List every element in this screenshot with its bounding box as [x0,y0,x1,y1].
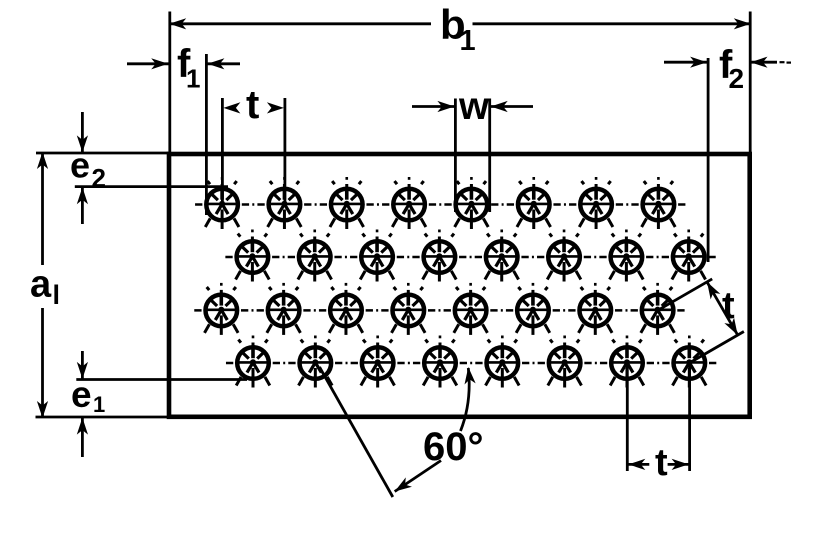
f2 extension line [707,58,710,262]
tube hole row1 col8 [642,177,676,229]
svg-text:1: 1 [460,25,476,57]
f1 left arrow shaft [127,62,169,65]
w left arrow shaft [412,105,455,108]
tube hole row4 col7 [610,336,644,388]
w right arrowhead [491,101,508,112]
tube hole row3 col2 [267,283,301,335]
e1 lower arrowhead (up) [77,418,88,435]
b1 right arrowhead [734,18,751,29]
tube hole row2 col4 [423,230,457,282]
tube hole row1 col5 [455,177,489,229]
a1 dimension line upper segment [41,153,44,265]
t top left arrowhead [223,102,240,113]
tube hole row2 col7 [610,230,644,282]
tube hole row4 col3 [361,336,395,388]
e2 upper arrowhead (down) [77,135,88,152]
svg-text:e: e [70,145,90,186]
bottom t right stub [668,463,689,466]
f2 shaft dash [780,61,785,63]
bottom t left stub [628,463,649,466]
60deg leader with arrowhead at vertex [395,461,441,492]
top reference line (plate top extended) [36,152,169,155]
diagonal t extension line from row4 hole [689,332,744,364]
60deg leader from row4 hole 2 [320,367,393,497]
tube hole row3 col1 [205,283,239,335]
e2 upper arrow shaft [81,112,84,152]
bottom t right extension line [688,365,691,471]
tube hole row2 col8 [672,230,706,282]
svg-text:60°: 60° [423,425,484,469]
f2 left arrowhead [690,57,707,68]
row 3 centerline [194,309,685,312]
w left extension line [454,99,457,213]
t top right extension line [283,98,286,205]
row 4 centerline [226,362,717,365]
svg-text:1: 1 [186,64,200,94]
svg-text:e: e [71,374,92,415]
b1 right extension line [749,12,752,153]
svg-text:t: t [722,285,735,327]
tube hole row4 col4 [423,336,457,388]
tube hole row1 col3 [330,177,364,229]
tube hole row2 col5 [485,230,519,282]
row 1 centerline [195,203,686,206]
t top left extension line [221,98,224,205]
tube hole row3 col5 [454,283,488,335]
svg-text:w: w [458,85,490,128]
b1 dimension line right segment [473,22,751,25]
f1 left arrowhead [151,58,168,69]
diagonal t dimension line [707,282,738,335]
svg-text:2: 2 [729,63,745,94]
a1 dimension line lower segment [41,308,44,417]
tube hole row1 col2 [268,177,302,229]
e1 upper arrow shaft [81,351,84,379]
e2 extension line to first hole [75,185,228,188]
w right extension line [488,99,491,213]
svg-text:1: 1 [93,392,105,417]
e2 lower arrow shaft [81,188,84,224]
tube hole row2 col3 [360,230,394,282]
tube hole row3 col3 [329,283,363,335]
tube hole row1 col6 [517,177,551,229]
tube hole row3 col4 [391,283,425,335]
t top right arrowhead [267,102,284,113]
e2 lower arrowhead (up) [77,187,88,204]
b1 left extension line [168,12,171,153]
f2 right arrowhead [751,57,768,68]
60deg curved leader to row centerline [461,368,470,431]
w left arrowhead [437,101,454,112]
f1 extension line [205,54,208,215]
diagonal t extension line from row3 hole [658,279,713,311]
tube hole row3 col8 [641,283,675,335]
svg-text:a: a [30,264,52,306]
tube hole row4 col2 [299,336,333,388]
f1 right arrowhead [207,58,224,69]
bottom t right arrowhead [672,459,689,470]
f2 left arrow shaft [664,61,708,64]
b1 left arrowhead [169,18,186,29]
bottom t left arrowhead [628,459,645,470]
svg-text:l: l [53,280,61,310]
tube hole row2 col1 [236,230,270,282]
svg-text:t: t [655,442,668,484]
bottom t left extension line [626,365,629,471]
tube hole row4 col6 [548,336,582,388]
tube hole row2 col2 [298,230,332,282]
tube hole row3 col7 [578,283,612,335]
row 2 centerline [225,256,716,259]
tube hole row1 col4 [392,177,426,229]
f2 right arrow shaft [751,61,778,64]
svg-text:t: t [246,83,259,127]
a1 top arrowhead (up) [37,152,48,169]
bottom reference line (plate bottom extended) [36,416,170,419]
b1 dimension line left segment [170,22,431,25]
diagonal t lower arrowhead [724,318,742,338]
tube hole row1 col7 [579,177,613,229]
tube hole row4 col1 [236,336,270,388]
tube hole row3 col6 [516,283,550,335]
tube hole row4 col5 [486,336,520,388]
f1 right arrow shaft [206,62,240,65]
tube hole row1 col1 [205,177,239,229]
tube hole row2 col6 [547,230,581,282]
tube hole row4 col8 [673,336,707,388]
e1 upper arrowhead (down) [77,362,88,379]
a1 bottom arrowhead (down) [37,401,48,418]
e1 lower arrow shaft [81,418,84,457]
diagonal t upper arrowhead [702,279,720,299]
tube plate outline [169,154,750,417]
e1 extension line to bottom hole [76,378,247,381]
w right arrow shaft [490,105,533,108]
svg-text:2: 2 [92,163,106,193]
